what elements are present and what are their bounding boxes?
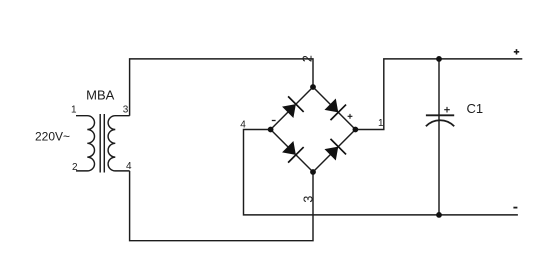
svg-text:1: 1 xyxy=(378,118,384,129)
svg-text:MBA: MBA xyxy=(86,88,115,103)
svg-text:2: 2 xyxy=(301,55,315,62)
svg-text:4: 4 xyxy=(240,120,246,131)
svg-text:3: 3 xyxy=(123,104,129,115)
svg-text:220V~: 220V~ xyxy=(35,130,70,144)
svg-text:3: 3 xyxy=(301,196,315,203)
svg-text:4: 4 xyxy=(126,161,132,172)
svg-text:1: 1 xyxy=(71,105,77,116)
svg-text:2: 2 xyxy=(72,162,78,173)
svg-text:C1: C1 xyxy=(467,101,484,116)
